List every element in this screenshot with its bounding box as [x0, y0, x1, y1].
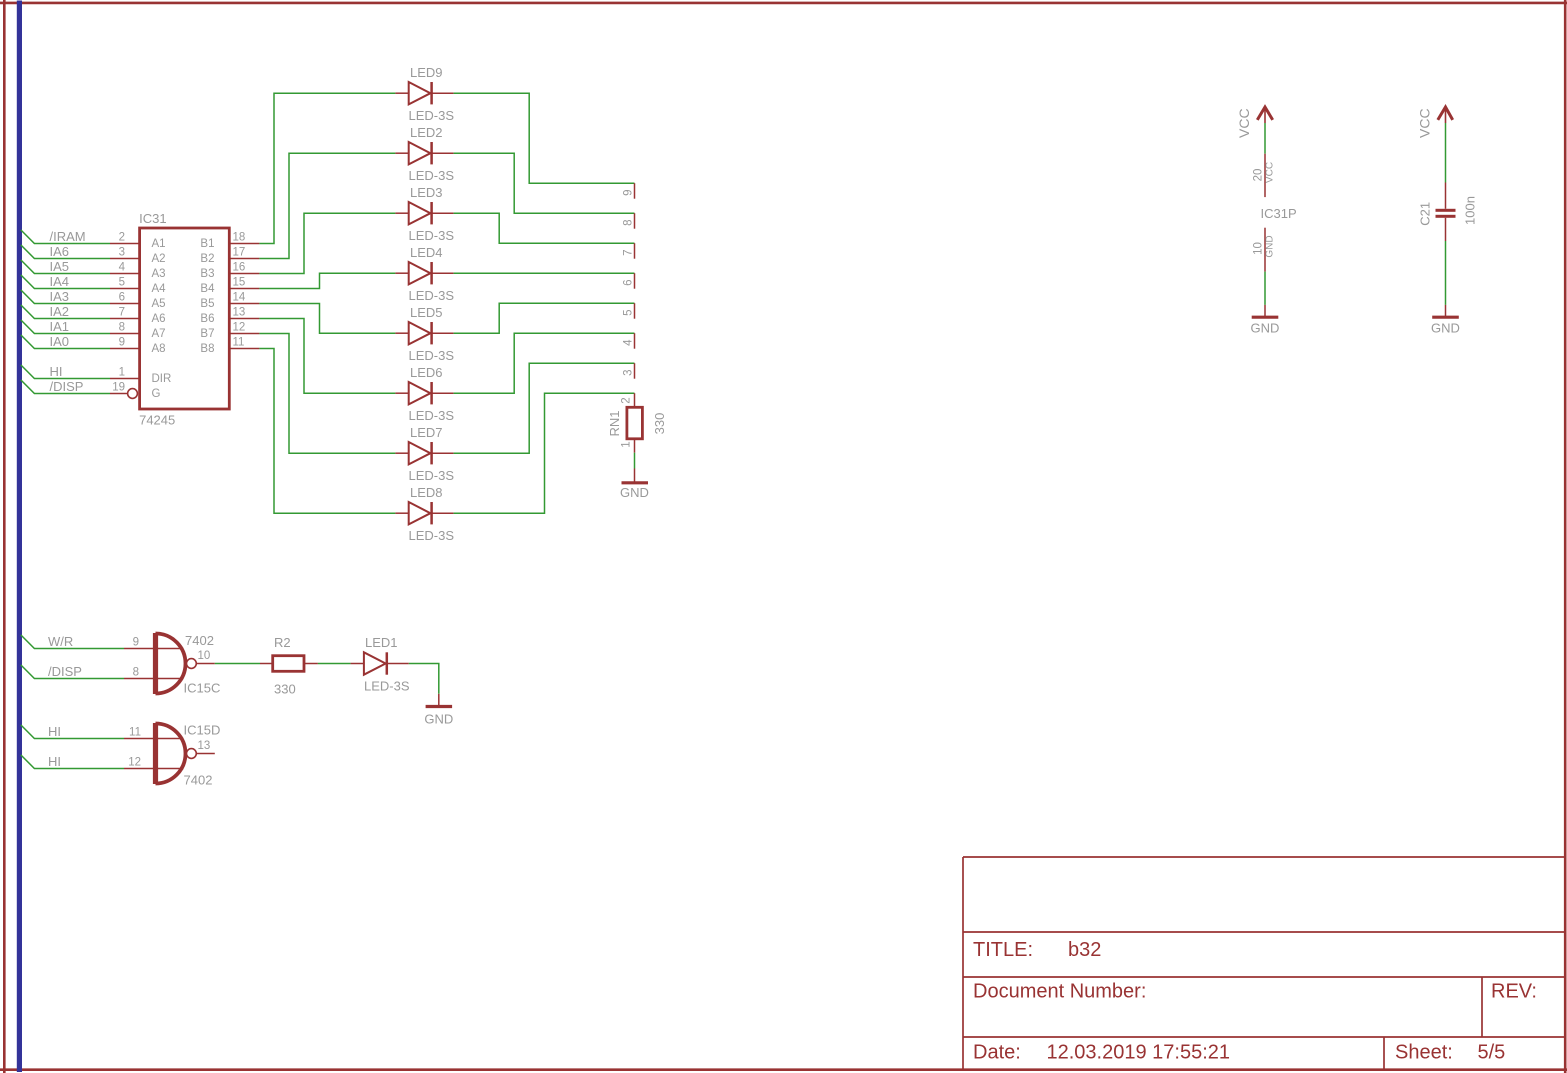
RN1 pin 5 stub [634, 303, 636, 319]
resistor RN1 pin 1 stub [634, 439, 636, 453]
svg-text:Date:: Date: [973, 1042, 1021, 1064]
IC31 pin 19 inversion bubble [128, 389, 138, 399]
svg-text:LED1: LED1 [365, 635, 398, 650]
svg-text:11: 11 [233, 337, 245, 349]
svg-text:IC31P: IC31P [1261, 206, 1297, 221]
svg-text:GND: GND [424, 712, 453, 727]
diode LED6 (LED) [395, 392, 408, 394]
svg-text:14: 14 [233, 292, 246, 304]
svg-text:12.03.2019 17:55:21: 12.03.2019 17:55:21 [1047, 1042, 1231, 1064]
wire net IC31 B5 to LED5 anode [259, 304, 395, 334]
svg-text:B7: B7 [200, 328, 214, 340]
svg-text:VCC: VCC [1416, 108, 1432, 138]
svg-text:330: 330 [274, 682, 296, 697]
svg-text:LED-3S: LED-3S [409, 528, 455, 543]
svg-text:LED-3S: LED-3S [409, 228, 455, 243]
svg-text:LED-3S: LED-3S [409, 288, 455, 303]
svg-text:G: G [152, 388, 161, 400]
svg-text:LED-3S: LED-3S [409, 348, 455, 363]
wire net IC31 B6 to LED6 anode [259, 319, 395, 394]
IC31 pin 6 (A5) stub [110, 303, 140, 305]
IC31 pin 9 (A8) stub [110, 348, 140, 350]
svg-text:GND: GND [1431, 321, 1460, 336]
wire VCC to C21 [1445, 123, 1447, 183]
svg-text:GND: GND [1265, 235, 1276, 257]
svg-text:B2: B2 [200, 253, 214, 265]
svg-text:330: 330 [652, 413, 667, 435]
wire IC15C output to R2 [215, 663, 260, 665]
IC31 pin 1 (DIR) stub [110, 378, 140, 380]
svg-text:VCC: VCC [1236, 108, 1252, 138]
svg-text:IA3: IA3 [50, 289, 70, 304]
svg-text:LED9: LED9 [410, 65, 443, 80]
wire net /DISP to IC15C [21, 665, 124, 679]
svg-text:3: 3 [623, 369, 635, 375]
svg-text:19: 19 [112, 382, 125, 394]
resistor RN1 body [627, 407, 643, 439]
wire net IC31 B1 to LED9 anode [259, 93, 395, 243]
wire LED3 cathode to RN1 [454, 213, 635, 243]
wire net IC31 B3 to LED3 anode [259, 213, 395, 273]
wire C21 to GND [1445, 241, 1447, 305]
svg-text:8: 8 [623, 219, 635, 225]
wire LED9 cathode to RN1 [454, 93, 635, 183]
svg-text:LED8: LED8 [410, 485, 443, 500]
wire net /DISP to G [21, 380, 110, 394]
svg-text:LED7: LED7 [410, 425, 443, 440]
svg-text:7: 7 [119, 307, 125, 319]
diode LED3 (LED) [395, 212, 408, 214]
RN1 pin 9 stub [634, 183, 636, 199]
title block frame [962, 857, 964, 1069]
svg-text:18: 18 [233, 232, 246, 244]
svg-text:IA0: IA0 [50, 334, 70, 349]
wire net HI to DIR [21, 365, 110, 379]
wire net /IRAM from bus [21, 230, 110, 244]
IC31 pin 7 (A6) stub [110, 318, 140, 320]
svg-text:REV:: REV: [1491, 981, 1537, 1003]
resistor RN1 pin 2 stub [634, 393, 636, 407]
IC31 pin 11 (B8) stub [229, 348, 259, 350]
IC31 pin 4 (A3) stub [110, 273, 140, 275]
svg-text:R2: R2 [274, 635, 291, 650]
svg-text:5: 5 [119, 277, 125, 289]
wire LED7 cathode to RN1 [454, 363, 635, 453]
svg-text:HI: HI [48, 754, 61, 769]
ground (below RN1) [634, 469, 636, 482]
wire net IA0 from bus [21, 335, 110, 349]
ground (C21) [1445, 305, 1447, 316]
IC31P pin 20 (VCC) stub [1264, 154, 1266, 197]
svg-text:1: 1 [621, 441, 633, 447]
svg-text:16: 16 [233, 262, 246, 274]
svg-text:11: 11 [129, 727, 141, 739]
wire net W/R to IC15C [21, 635, 124, 649]
svg-text:A5: A5 [152, 298, 166, 310]
svg-text:IC15C: IC15C [184, 681, 221, 696]
svg-text:B8: B8 [200, 343, 214, 355]
svg-text:LED3: LED3 [410, 185, 443, 200]
diode LED5 (LED) [395, 332, 408, 334]
svg-text:B6: B6 [200, 313, 214, 325]
svg-text:8: 8 [119, 322, 125, 334]
NOR gate IC15C (7402) [153, 633, 158, 694]
svg-text:IA6: IA6 [50, 244, 70, 259]
wire LED5 cathode to RN1 [454, 303, 635, 333]
IC31 pin 13 (B6) stub [229, 318, 259, 320]
svg-text:4: 4 [119, 262, 126, 274]
diode LED4 (LED) [395, 272, 408, 274]
svg-text:5/5: 5/5 [1478, 1042, 1506, 1064]
wire net IC31 B7 to LED7 anode [259, 334, 395, 454]
svg-text:15: 15 [233, 277, 246, 289]
svg-text:IA2: IA2 [50, 304, 70, 319]
svg-text:B4: B4 [200, 283, 215, 295]
wire net IA5 from bus [21, 260, 110, 274]
svg-text:3: 3 [119, 247, 125, 259]
ground (below LED1) [438, 694, 440, 706]
op-amp U1 IC31 74245 buffer box [140, 228, 230, 409]
resistor R2 [260, 663, 273, 665]
svg-text:9: 9 [623, 189, 635, 195]
svg-text:74245: 74245 [139, 413, 175, 428]
svg-text:12: 12 [128, 757, 141, 769]
svg-text:LED4: LED4 [410, 245, 443, 260]
wire net IA2 from bus [21, 305, 110, 319]
svg-text:/DISP: /DISP [50, 379, 84, 394]
svg-text:A6: A6 [152, 313, 166, 325]
svg-text:B5: B5 [200, 298, 214, 310]
wire LED8 cathode to RN1 [454, 393, 635, 513]
diode LED1 (LED) [351, 663, 364, 665]
wire net IC31 B8 to LED8 anode [259, 349, 395, 514]
wire net IA3 from bus [21, 290, 110, 304]
wire RN1 pin1 to GND [634, 453, 636, 469]
ground (IC31P) [1264, 305, 1266, 316]
diode LED7 (LED) [395, 452, 408, 454]
svg-text:5: 5 [623, 309, 635, 315]
svg-text:IA1: IA1 [50, 319, 70, 334]
IC31 pin 8 (A7) stub [110, 333, 140, 335]
svg-text:7: 7 [623, 249, 635, 255]
svg-text:W/R: W/R [48, 634, 73, 649]
IC31 pin 15 (B4) stub [229, 288, 259, 290]
svg-text:LED-3S: LED-3S [409, 108, 455, 123]
bus (vertical blue bus bar) [17, 1, 22, 1073]
IC31 pin 16 (B3) stub [229, 273, 259, 275]
diode LED2 (LED) [395, 152, 408, 154]
RN1 pin 8 stub [634, 213, 636, 229]
svg-text:DIR: DIR [152, 373, 172, 385]
svg-text:8: 8 [133, 667, 139, 679]
wire net IC31 B2 to LED2 anode [259, 153, 395, 258]
wire net IC31 B4 to LED4 anode [259, 273, 395, 288]
svg-text:13: 13 [233, 307, 246, 319]
svg-text:LED-3S: LED-3S [409, 408, 455, 423]
svg-text:4: 4 [623, 339, 635, 346]
svg-text:Document Number:: Document Number: [973, 981, 1146, 1003]
diode LED9 (LED) [395, 92, 408, 94]
svg-text:IC31: IC31 [139, 211, 166, 226]
IC31 pin 3 (A2) stub [110, 258, 140, 260]
wire LED1 cathode to GND [409, 664, 439, 694]
wire net HI to IC15D pin 12 [21, 755, 124, 769]
power VCC symbol (IC31P) [1257, 107, 1272, 120]
svg-text:HI: HI [48, 724, 61, 739]
RN1 pin 6 stub [634, 273, 636, 289]
svg-text:12: 12 [233, 322, 246, 334]
svg-text:A2: A2 [152, 253, 166, 265]
svg-text:A3: A3 [152, 268, 166, 280]
svg-text:b32: b32 [1068, 939, 1101, 961]
power VCC symbol (C21) [1438, 107, 1453, 120]
svg-text:10: 10 [198, 650, 211, 662]
svg-text:100n: 100n [1463, 196, 1478, 225]
wire VCC to IC31P pin 20 [1264, 123, 1266, 154]
svg-text:13: 13 [198, 740, 211, 752]
svg-text:A4: A4 [152, 283, 167, 295]
svg-text:HI: HI [50, 364, 63, 379]
svg-text:LED5: LED5 [410, 305, 443, 320]
svg-text:/IRAM: /IRAM [50, 229, 86, 244]
svg-text:7402: 7402 [185, 633, 214, 648]
wire LED2 cathode to RN1 [454, 153, 635, 213]
svg-text:1: 1 [119, 367, 125, 379]
svg-text:10: 10 [1252, 242, 1264, 255]
svg-text:C21: C21 [1417, 202, 1432, 226]
svg-text:2: 2 [119, 232, 125, 244]
RN1 pin 3 stub [634, 363, 636, 379]
svg-text:A7: A7 [152, 328, 166, 340]
svg-text:TITLE:: TITLE: [973, 939, 1033, 961]
svg-text:LED-3S: LED-3S [364, 679, 410, 694]
svg-text:Sheet:: Sheet: [1395, 1042, 1453, 1064]
IC31 pin 5 (A4) stub [110, 288, 140, 290]
svg-text:17: 17 [233, 247, 246, 259]
svg-text:GND: GND [1251, 321, 1280, 336]
IC31 pin 12 (B7) stub [229, 333, 259, 335]
svg-text:IA5: IA5 [50, 259, 70, 274]
RN1 pin 7 stub [634, 243, 636, 259]
svg-text:6: 6 [623, 279, 635, 285]
wire net IA1 from bus [21, 320, 110, 334]
capacitor C21 [1445, 183, 1447, 209]
drawing frame border [0, 2, 1567, 5]
NOR gate IC15D (7402) [153, 723, 158, 784]
svg-text:7402: 7402 [184, 773, 213, 788]
IC31 pin 17 (B2) stub [229, 258, 259, 260]
svg-text:LED2: LED2 [410, 125, 443, 140]
svg-text:LED-3S: LED-3S [409, 168, 455, 183]
svg-text:9: 9 [133, 637, 139, 649]
wire net IA4 from bus [21, 275, 110, 289]
svg-text:9: 9 [119, 337, 125, 349]
svg-text:20: 20 [1252, 169, 1264, 182]
svg-text:B3: B3 [200, 268, 214, 280]
RN1 pin 4 stub [634, 333, 636, 349]
diode LED8 (LED) [395, 512, 408, 514]
wire R2 to LED1 [318, 663, 351, 665]
IC31 pin 14 (B5) stub [229, 303, 259, 305]
wire net IA6 from bus [21, 245, 110, 259]
svg-text:B1: B1 [200, 238, 214, 250]
svg-text:GND: GND [620, 485, 649, 500]
IC31 pin 19 (G) stub [110, 393, 127, 395]
wire IC31P pin 10 to GND [1264, 272, 1266, 305]
IC31 pin 2 (A1) stub [110, 243, 140, 245]
svg-text:IC15D: IC15D [184, 723, 221, 738]
svg-text:RN1: RN1 [607, 410, 622, 436]
svg-text:LED6: LED6 [410, 365, 443, 380]
wire net HI to IC15D pin 11 [21, 725, 124, 739]
svg-text:A8: A8 [152, 343, 166, 355]
svg-text:6: 6 [119, 292, 125, 304]
svg-text:VCC: VCC [1265, 162, 1276, 183]
svg-text:LED-3S: LED-3S [409, 468, 455, 483]
svg-text:A1: A1 [152, 238, 166, 250]
svg-text:/DISP: /DISP [48, 664, 82, 679]
svg-text:2: 2 [621, 397, 633, 403]
svg-text:IA4: IA4 [50, 274, 70, 289]
wire LED6 cathode to RN1 [454, 333, 635, 393]
IC31 pin 18 (B1) stub [229, 243, 259, 245]
IC31P pin 10 (GND) stub [1264, 228, 1266, 272]
wire LED4 cathode to RN1 pin 6 [454, 272, 635, 274]
